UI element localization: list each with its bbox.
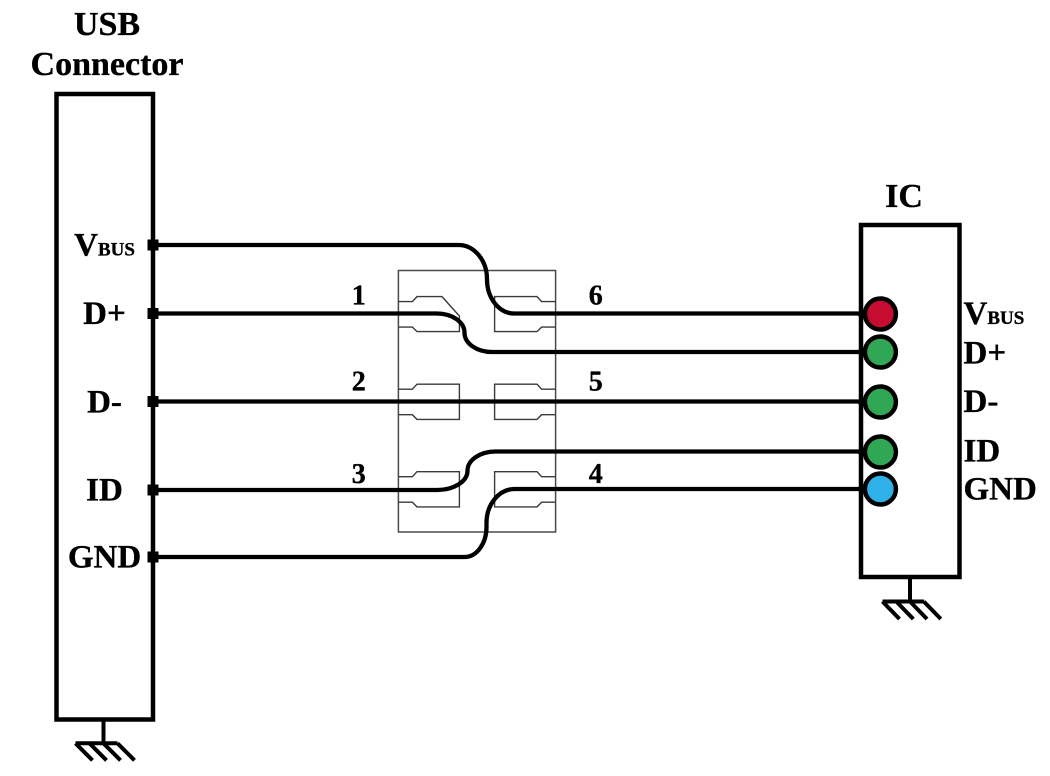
svg-text:1: 1 (352, 280, 366, 311)
pad 3 (left, bottom) (398, 472, 459, 507)
USB pin square ID (148, 485, 159, 496)
svg-text:D+: D+ (964, 336, 1007, 372)
svg-text:D-: D- (87, 385, 122, 421)
svg-text:IC: IC (885, 178, 923, 215)
svg-text:ID: ID (964, 434, 1001, 470)
pad 4 (right, bottom) (495, 472, 556, 507)
pad 6 (right, top) (495, 297, 556, 332)
svg-text:USB: USB (74, 6, 140, 43)
IC pin circle D+ (green) (865, 337, 896, 368)
ground symbol (USB connector) (76, 720, 135, 761)
IC pin wire stubs (redrawn over box edge) (858, 314, 872, 489)
USB connector box (57, 94, 154, 720)
USB pin square VBUS (148, 240, 159, 251)
svg-text:6: 6 (589, 280, 603, 311)
middle adapter block outline (398, 271, 555, 533)
svg-text:2: 2 (352, 367, 366, 398)
wire GND (USB GND to pin 4 IC GND) (153, 489, 875, 557)
wire D- (USB D- pin 2 to pin 5 IC D-) (153, 399, 875, 403)
svg-text:5: 5 (589, 367, 603, 398)
USB pin square D- (148, 396, 159, 407)
svg-text:3: 3 (352, 459, 366, 490)
IC pin circle VBUS (red) (865, 299, 896, 330)
svg-text:GND: GND (964, 472, 1037, 508)
USB pin square D+ (148, 308, 159, 319)
svg-text:Connector: Connector (31, 46, 184, 83)
pad 1 (left, top, chamfered) (398, 297, 459, 332)
svg-text:GND: GND (68, 540, 141, 576)
IC box (861, 225, 960, 577)
pad 2 (left, middle) (398, 384, 459, 419)
USB pin square GND (148, 552, 159, 563)
wire VBUS (USB VBUS to IC pin 6) (153, 245, 875, 314)
wire D+ (USB D+ pin 1 to IC D+) (153, 314, 875, 353)
svg-text:4: 4 (589, 459, 603, 490)
svg-text:ID: ID (86, 473, 123, 509)
ground symbol (IC) (883, 577, 941, 619)
pad 5 (right, middle) (495, 384, 556, 419)
wire ID (USB ID pin 3 to IC ID) (153, 452, 875, 491)
IC pin circle GND (blue) (865, 474, 896, 505)
IC pin circle ID (green) (865, 437, 896, 468)
IC pin circle D- (green) (865, 387, 896, 418)
svg-text:D+: D+ (83, 296, 126, 332)
svg-text:D-: D- (964, 384, 999, 420)
